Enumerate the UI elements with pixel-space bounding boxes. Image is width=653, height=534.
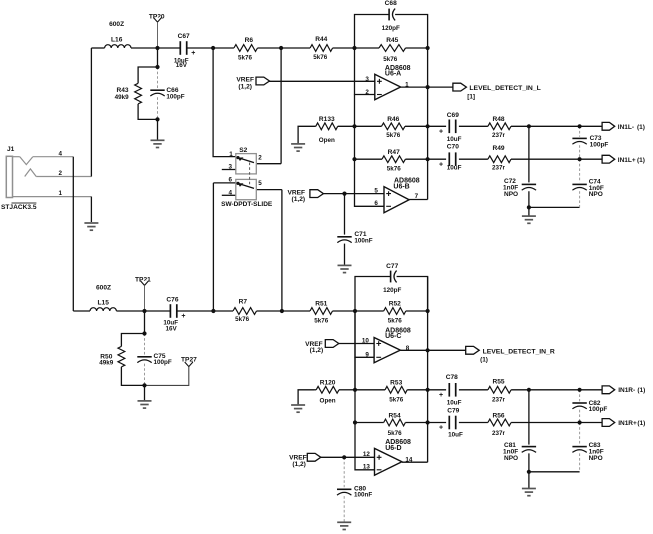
svg-text:R56: R56: [492, 413, 504, 420]
svg-text:(1): (1): [637, 124, 645, 131]
svg-text:(1): (1): [637, 157, 645, 164]
svg-text:C79: C79: [447, 407, 459, 414]
svg-text:2: 2: [258, 154, 262, 161]
svg-text:+: +: [439, 425, 443, 432]
svg-text:NPO: NPO: [589, 455, 603, 462]
svg-text:+: +: [439, 162, 443, 169]
svg-text:NPO: NPO: [504, 191, 518, 198]
svg-text:R53: R53: [390, 380, 402, 387]
svg-text:5: 5: [258, 180, 262, 187]
svg-text:U6-C: U6-C: [385, 333, 401, 340]
svg-text:NPO: NPO: [589, 191, 603, 198]
svg-text:(1,2): (1,2): [292, 196, 306, 203]
svg-text:7: 7: [415, 193, 419, 200]
svg-text:3: 3: [365, 76, 369, 83]
svg-text:+: +: [181, 313, 185, 320]
svg-text:5k76: 5k76: [389, 396, 404, 403]
svg-text:R6: R6: [245, 37, 254, 44]
svg-text:10uF: 10uF: [447, 400, 462, 407]
svg-text:C68: C68: [385, 0, 397, 7]
svg-text:2: 2: [365, 89, 369, 96]
svg-text:R120: R120: [320, 380, 336, 387]
svg-text:8: 8: [406, 345, 410, 352]
svg-text:LEVEL_DETECT_IN_L: LEVEL_DETECT_IN_L: [469, 85, 540, 92]
svg-text:12: 12: [363, 451, 371, 458]
svg-text:R133: R133: [319, 116, 335, 123]
svg-text:10uF: 10uF: [447, 165, 462, 172]
svg-text:(1): (1): [637, 387, 645, 394]
svg-text:IN1R-: IN1R-: [618, 387, 635, 394]
svg-text:IN1L-: IN1L-: [618, 124, 634, 131]
svg-text:C70: C70: [447, 143, 459, 150]
svg-text:Open: Open: [319, 137, 335, 144]
svg-text:600Z: 600Z: [96, 285, 111, 292]
svg-text:U6-A: U6-A: [385, 71, 401, 78]
svg-text:10: 10: [362, 338, 370, 345]
svg-text:5k76: 5k76: [388, 318, 403, 325]
svg-text:SW-DPDT-SLIDE: SW-DPDT-SLIDE: [221, 201, 273, 208]
svg-text:R44: R44: [315, 36, 327, 43]
svg-text:(1,2): (1,2): [238, 83, 252, 90]
svg-text:STJACK3.5: STJACK3.5: [1, 204, 37, 211]
svg-text:16V: 16V: [176, 62, 188, 69]
svg-text:2: 2: [59, 170, 63, 177]
svg-text:4: 4: [59, 150, 63, 157]
svg-text:(1): (1): [480, 357, 488, 364]
svg-text:R48: R48: [492, 116, 504, 123]
svg-text:R7: R7: [239, 299, 248, 306]
svg-text:237r: 237r: [492, 397, 506, 404]
svg-text:[1]: [1]: [467, 93, 475, 100]
svg-text:R55: R55: [492, 379, 504, 386]
svg-text:237r: 237r: [492, 132, 506, 139]
svg-text:49k9: 49k9: [99, 360, 114, 367]
svg-text:U6-B: U6-B: [393, 184, 409, 191]
svg-text:100pF: 100pF: [154, 359, 172, 366]
svg-text:13: 13: [363, 464, 371, 471]
svg-text:+: +: [439, 392, 443, 399]
svg-text:C78: C78: [446, 374, 458, 381]
svg-text:IN1R+: IN1R+: [618, 420, 637, 427]
svg-text:R51: R51: [315, 300, 327, 307]
svg-text:49k9: 49k9: [115, 94, 130, 101]
svg-text:16V: 16V: [166, 326, 178, 333]
svg-text:+: +: [439, 129, 443, 136]
svg-text:5k76: 5k76: [383, 56, 398, 63]
svg-text:1: 1: [59, 190, 63, 197]
svg-text:100pF: 100pF: [590, 142, 609, 149]
svg-text:R52: R52: [389, 300, 401, 307]
svg-text:5k76: 5k76: [386, 132, 401, 139]
svg-text:5: 5: [374, 187, 378, 194]
svg-text:6: 6: [228, 177, 232, 184]
svg-text:LEVEL_DETECT_IN_R: LEVEL_DETECT_IN_R: [483, 348, 555, 355]
svg-text:C69: C69: [447, 112, 459, 119]
svg-text:R45: R45: [386, 37, 398, 44]
svg-text:100nF: 100nF: [354, 491, 372, 498]
svg-text:1: 1: [229, 151, 233, 158]
svg-text:600Z: 600Z: [109, 21, 124, 28]
svg-text:5k76: 5k76: [387, 165, 402, 172]
svg-text:5k76: 5k76: [238, 55, 253, 62]
svg-text:4: 4: [228, 189, 232, 196]
svg-text:6: 6: [374, 200, 378, 207]
svg-text:3: 3: [228, 164, 232, 171]
svg-text:(1): (1): [637, 420, 645, 427]
svg-text:U6-D: U6-D: [385, 445, 401, 452]
svg-text:10uF: 10uF: [448, 432, 463, 439]
svg-text:L16: L16: [111, 37, 123, 44]
svg-text:9: 9: [365, 352, 369, 359]
svg-text:237r: 237r: [492, 165, 506, 172]
svg-text:C76: C76: [166, 297, 178, 304]
svg-text:R54: R54: [389, 413, 401, 420]
svg-text:C67: C67: [178, 33, 190, 40]
svg-text:10uF: 10uF: [447, 136, 462, 143]
svg-text:120pF: 120pF: [383, 287, 401, 294]
svg-text:R47: R47: [388, 149, 400, 156]
svg-text:Open: Open: [320, 398, 336, 405]
svg-text:C77: C77: [386, 263, 398, 270]
svg-text:5k76: 5k76: [388, 430, 403, 437]
svg-text:5k76: 5k76: [235, 316, 250, 323]
svg-text:120pF: 120pF: [382, 25, 400, 32]
svg-text:J1: J1: [7, 146, 15, 153]
svg-text:R49: R49: [492, 145, 504, 152]
svg-text:(1,2): (1,2): [292, 461, 306, 468]
svg-text:S2: S2: [239, 147, 247, 154]
svg-text:R46: R46: [387, 116, 399, 123]
svg-text:IN1L+: IN1L+: [618, 157, 636, 164]
svg-text:L15: L15: [98, 300, 110, 307]
svg-text:(1,2): (1,2): [310, 347, 324, 354]
svg-text:100nF: 100nF: [354, 237, 372, 244]
svg-text:237r: 237r: [492, 430, 506, 437]
svg-text:100pF: 100pF: [166, 94, 184, 101]
svg-text:5k76: 5k76: [313, 54, 328, 61]
svg-text:+: +: [191, 50, 195, 57]
svg-text:100pF: 100pF: [589, 406, 608, 413]
svg-text:NPO: NPO: [504, 455, 518, 462]
svg-text:5k76: 5k76: [314, 318, 329, 325]
